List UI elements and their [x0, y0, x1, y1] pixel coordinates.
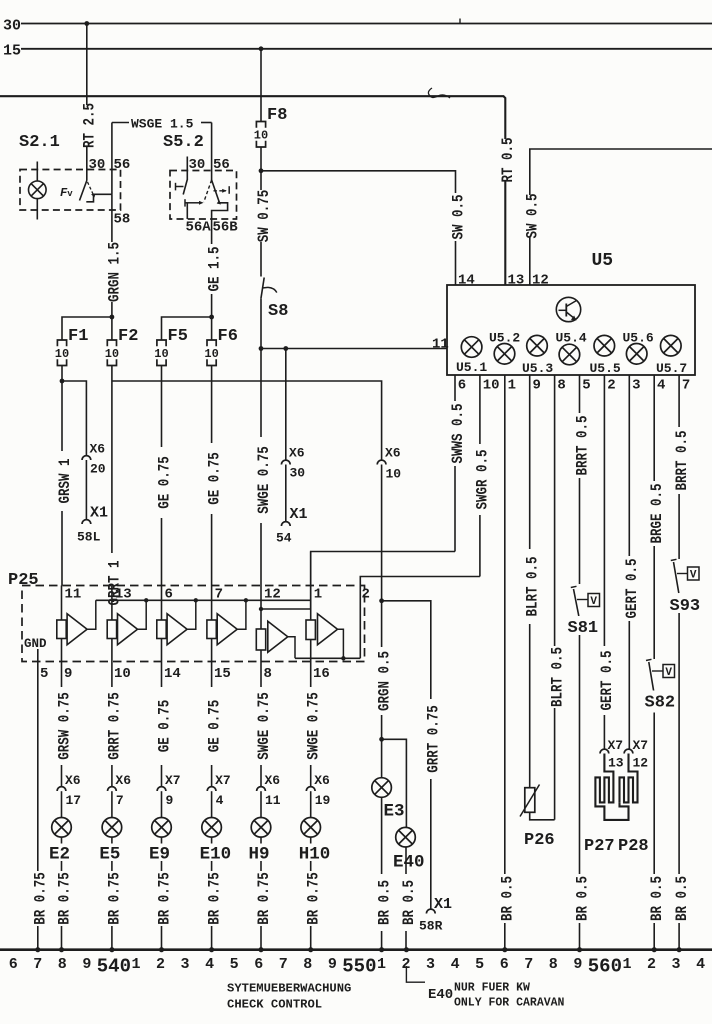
svg-text:P26: P26 [524, 831, 555, 850]
lamp E10 [202, 818, 222, 838]
svg-text:4: 4 [696, 956, 705, 973]
wire U5 pin4 down [653, 375, 655, 659]
switch S8 blade [261, 278, 264, 299]
svg-text:S93: S93 [670, 597, 701, 616]
junction X6-30 branch [283, 346, 288, 351]
svg-text:U5.7: U5.7 [656, 361, 687, 376]
junction rail x381 [379, 947, 384, 952]
lamp H10 [301, 818, 321, 838]
connector X6 pin19 arc H10 [306, 787, 315, 791]
unit U5 box [447, 285, 695, 375]
wire GRGN 0.5 run [112, 381, 382, 460]
svg-text:F1: F1 [68, 327, 88, 346]
wire F5 top jog [162, 317, 212, 340]
junction bus2 [341, 656, 345, 660]
junction rail x261 [258, 947, 263, 952]
svg-text:10: 10 [114, 666, 131, 682]
wire label BR 0.5 s93 [672, 874, 687, 923]
lamp E2 label [48, 844, 73, 862]
wire label SW 0.5 pin12 [522, 195, 537, 237]
heater coil P28 [620, 754, 638, 803]
svg-text:15: 15 [214, 666, 231, 682]
wire label BR 0.75 E2 [54, 871, 69, 926]
wire label BR 0.5 s81 [572, 874, 587, 923]
wire P25 to E5 [111, 662, 113, 787]
svg-text:4: 4 [657, 378, 665, 394]
svg-text:SW 0.5: SW 0.5 [450, 195, 467, 240]
svg-text:X1: X1 [434, 896, 452, 913]
junction bus15/F8 [259, 46, 264, 51]
wire E2 to rail [61, 837, 63, 949]
svg-text:9: 9 [328, 956, 337, 973]
svg-text:BR 0.5: BR 0.5 [574, 876, 591, 921]
svg-text:9: 9 [573, 956, 582, 973]
junction rail x504 [502, 947, 507, 952]
svg-text:5: 5 [582, 378, 590, 394]
buffer 4 wire out [211, 639, 213, 662]
svg-text:58R: 58R [419, 919, 443, 934]
lamp E10 label [198, 844, 232, 862]
svg-text:10: 10 [386, 467, 402, 482]
svg-text:BLRT 0.5: BLRT 0.5 [549, 647, 566, 707]
svg-text:P27: P27 [584, 837, 615, 856]
svg-text:BR 0.5: BR 0.5 [376, 880, 393, 925]
connector X6 pin11 arc H9 [257, 787, 266, 791]
svg-text:1: 1 [314, 587, 322, 603]
lamp U5.5 [594, 335, 615, 356]
switch S93 [671, 559, 677, 560]
wire RT 2.5 [86, 24, 88, 181]
wire label BR 0.5 s82 [647, 874, 662, 923]
fuse F2 [107, 340, 116, 346]
svg-text:16: 16 [313, 666, 330, 682]
svg-text:9: 9 [82, 956, 91, 973]
svg-text:56: 56 [114, 157, 131, 173]
buffer 4 in P25 triangle [217, 614, 237, 645]
buffer 2 output [138, 600, 147, 629]
wire label GRGN 0.5 [374, 647, 389, 715]
wire stub below S2.1 lamp [36, 199, 38, 220]
svg-text:BR 0.75: BR 0.75 [33, 872, 50, 925]
thermistor P26 out [530, 812, 555, 820]
svg-text:X7: X7 [165, 773, 181, 788]
svg-text:SWWS 0.5: SWWS 0.5 [450, 404, 467, 464]
svg-text:8: 8 [264, 666, 272, 682]
svg-text:6: 6 [500, 956, 509, 973]
lamp H10 label [297, 844, 331, 862]
svg-text:X6: X6 [265, 773, 281, 788]
svg-text:20: 20 [90, 462, 106, 477]
wire X7 to lamp E9 [161, 791, 163, 817]
lamp U5.4 [559, 344, 580, 365]
wire label GRSW 0.75 E2 [54, 687, 69, 765]
wire below F5 [161, 366, 163, 586]
buffer 5 wire in [260, 586, 262, 630]
buffer 1 in P25 triangle [67, 614, 87, 645]
svg-text:RT 2.5: RT 2.5 [82, 103, 99, 148]
wire X6-20 to X1 [85, 460, 87, 519]
wire rail to RT 0.5 [0, 96, 505, 285]
wire label GRRT 0.75 [423, 699, 438, 779]
svg-text:10: 10 [254, 129, 268, 143]
svg-text:P28: P28 [618, 837, 649, 856]
lamp U5.2 [494, 344, 515, 365]
wire label GE 0.75 E9 [154, 687, 169, 765]
wire GE 1.5 [211, 219, 213, 340]
wire X6 to lamp H10 [310, 791, 312, 817]
wire below F6 [211, 366, 213, 586]
S2.1 contact step [86, 194, 112, 202]
wire label BRRT 0.5 p7 [672, 427, 687, 494]
connector X7 pin9 arc E9 [157, 787, 166, 791]
svg-text:V: V [590, 596, 597, 608]
svg-text:E10: E10 [200, 845, 232, 865]
svg-text:9: 9 [64, 666, 72, 682]
junction rail x579 [577, 947, 582, 952]
svg-text:58: 58 [114, 212, 131, 228]
wire below F1 [61, 366, 63, 586]
svg-text:1: 1 [622, 956, 631, 973]
lamp E40 [396, 827, 416, 847]
svg-text:2: 2 [647, 956, 656, 973]
buffer 3 wire out [161, 639, 163, 662]
connector X7 pin4 arc E10 [207, 787, 216, 791]
lamp U5.1 [461, 337, 482, 358]
wire label BR 0.5 E40 [399, 874, 414, 931]
lamp E2 [52, 818, 72, 838]
wire to U5 pin14 [261, 171, 456, 285]
thermistor P26 [525, 788, 535, 813]
wire U5 pin3 down [628, 375, 630, 749]
wire F8 feed [260, 49, 262, 122]
buffer 5 wire out [260, 650, 262, 662]
wire label GE 1.5 [204, 244, 219, 294]
wire E40 to rail [405, 847, 407, 950]
svg-text:V: V [665, 667, 672, 679]
wire label GRGN 1.5 [104, 242, 119, 302]
buffer 6 output [338, 629, 344, 658]
svg-text:19: 19 [315, 793, 331, 808]
svg-text:GERT 0.5: GERT 0.5 [599, 651, 616, 711]
svg-text:7: 7 [279, 956, 288, 973]
svg-text:8: 8 [58, 956, 67, 973]
svg-text:BR 0.75: BR 0.75 [206, 872, 223, 925]
svg-text:S82: S82 [645, 694, 676, 713]
wire below F8 [260, 147, 262, 277]
svg-text:15: 15 [3, 43, 21, 60]
wire S5.2 pin30 stub [186, 157, 188, 181]
svg-text:1: 1 [377, 956, 386, 973]
svg-text:56B: 56B [213, 220, 239, 236]
connector X6 pin30 arc [281, 460, 290, 464]
wire label BR 0.75 E9 [154, 871, 169, 926]
wire label BR 0.75 H9 [254, 871, 269, 926]
svg-text:GE 0.75: GE 0.75 [156, 456, 173, 509]
wire P25 to E2 [61, 662, 63, 787]
svg-text:SWGE 0.75: SWGE 0.75 [256, 692, 273, 759]
wire below S82 [653, 713, 655, 950]
junction rail x61 [59, 947, 64, 952]
svg-text:58L: 58L [77, 530, 101, 545]
connector X6 pin10 arc [377, 460, 386, 464]
wire E40 branch [382, 739, 407, 827]
buffer 3 in P25 resistor [157, 620, 166, 639]
svg-text:7: 7 [116, 793, 124, 808]
svg-text:SWGR 0.5: SWGR 0.5 [475, 450, 492, 510]
wire label GE 0.75 E10 [204, 687, 219, 765]
buffer 6 resistor [306, 620, 315, 640]
lamp H9 label [247, 844, 272, 862]
svg-text:F5: F5 [168, 327, 188, 346]
wire label BLRT 0.5 p9 [522, 549, 537, 624]
svg-text:3: 3 [632, 378, 640, 394]
lamp E9 label [148, 844, 173, 862]
svg-text:30: 30 [3, 18, 21, 35]
svg-text:GE 1.5: GE 1.5 [206, 247, 223, 292]
junction E40 branch [379, 737, 384, 742]
dashed arrow S2.1 [88, 182, 94, 194]
wire label RT 0.5 [498, 139, 513, 181]
svg-text:U5.6: U5.6 [623, 331, 654, 346]
svg-text:WSGE 1.5: WSGE 1.5 [131, 117, 194, 132]
fuse F1 [57, 340, 66, 346]
svg-text:X1: X1 [290, 506, 308, 523]
wire label SW 0.5 pin14 [448, 193, 463, 241]
wire stub above S2.1 lamp [36, 162, 38, 182]
svg-text:GE 0.75: GE 0.75 [206, 700, 223, 753]
wire label BR 0.5 p1 [497, 874, 512, 923]
wire below F2 [111, 366, 113, 586]
wire label BR 0.75 GND [30, 871, 45, 926]
svg-text:30: 30 [89, 157, 106, 173]
switch S81 label [566, 616, 603, 635]
svg-text:8: 8 [557, 378, 565, 394]
wire U5 pin8 down [554, 375, 556, 820]
svg-text:E5: E5 [99, 845, 120, 865]
svg-text:3: 3 [426, 956, 435, 973]
buffer 4 wire in [211, 586, 213, 621]
lamp U5.7 [661, 335, 682, 356]
wire P25 to H9 [260, 662, 262, 787]
connector X1 pin58R arc [426, 909, 435, 913]
junction rail x654 [652, 947, 657, 952]
junction rail x161 [159, 947, 164, 952]
connector X1 pin54 arc [281, 522, 290, 526]
buffer 6 wire out [310, 640, 312, 662]
S5.2 right contact [228, 186, 230, 194]
switch S81 vbox [588, 594, 600, 607]
S5.2 left contact [176, 186, 184, 188]
wire GRGN 0.5 down [381, 465, 383, 778]
junction rail x211 [209, 947, 214, 952]
svg-text:GRGN 0.5: GRGN 0.5 [376, 651, 393, 711]
svg-text:BLRT 0.5: BLRT 0.5 [524, 557, 541, 617]
wire S2.1 pin56 drop [111, 123, 113, 195]
buffer 1 wire out [61, 639, 63, 662]
svg-text:S81: S81 [568, 619, 599, 638]
wire label BRRT 0.5 p5 [572, 413, 587, 478]
svg-text:U5: U5 [592, 251, 614, 271]
svg-text:ONLY FOR CARAVAN: ONLY FOR CARAVAN [454, 997, 565, 1010]
svg-text:BRRT 0.5: BRRT 0.5 [674, 431, 691, 491]
svg-text:X6: X6 [289, 446, 305, 461]
svg-text:E3: E3 [384, 802, 405, 822]
wire label SWWS 0.5 [448, 401, 463, 466]
junction bus1 b2 [144, 598, 148, 602]
wire U5 pin6 down [454, 375, 456, 552]
wire U5 pin10 down [479, 375, 481, 577]
switch S93 vbox [688, 567, 700, 580]
svg-text:GRRT 0.75: GRRT 0.75 [107, 692, 124, 759]
junction F8/SW0.5 [259, 168, 264, 173]
wire P25 to E10 [211, 662, 213, 787]
svg-text:6: 6 [9, 956, 18, 973]
wire pin1 link [311, 552, 455, 610]
junction rail x111 [109, 947, 114, 952]
svg-text:SWGE 0.75: SWGE 0.75 [305, 692, 322, 759]
wire S5.2 pin56 drop [211, 123, 213, 181]
svg-text:GE 0.75: GE 0.75 [206, 452, 223, 505]
junction GE/F5 [209, 315, 214, 320]
svg-text:X6: X6 [65, 773, 81, 788]
switch S82 [646, 659, 652, 660]
svg-text:H10: H10 [299, 845, 331, 865]
buffer 1 output [87, 600, 96, 629]
buffer 3 output [187, 600, 196, 629]
artifact squiggle [428, 88, 450, 98]
wire SWGE 0.75 [260, 349, 262, 586]
svg-text:BR 0.75: BR 0.75 [256, 872, 273, 925]
connector X1 pin58L arc [82, 520, 91, 524]
wire U5 pin9 down [529, 375, 531, 788]
svg-text:BR 0.5: BR 0.5 [674, 876, 691, 921]
S5.2 output step [212, 203, 228, 219]
svg-text:Fv: Fv [60, 186, 73, 200]
svg-text:10: 10 [483, 378, 500, 394]
wire X6 to lamp E2 [61, 791, 63, 817]
svg-text:H9: H9 [249, 845, 270, 865]
transistor in U5 [556, 297, 580, 321]
svg-text:30: 30 [189, 157, 206, 173]
connector X6 pin20 arc [82, 456, 91, 460]
svg-text:6: 6 [458, 378, 466, 394]
svg-text:BR 0.75: BR 0.75 [107, 872, 124, 925]
wire label SW 0.75 [254, 190, 269, 242]
svg-text:3: 3 [181, 956, 190, 973]
svg-text:3: 3 [672, 956, 681, 973]
svg-text:F2: F2 [118, 327, 138, 346]
buffer 3 in P25 triangle [167, 614, 187, 645]
svg-text:S8: S8 [268, 302, 288, 321]
wire below S81 [579, 635, 581, 950]
wire X6-30 to X1 [285, 465, 287, 522]
svg-text:5: 5 [40, 666, 48, 682]
wire label GRRT 0.75 E5 [104, 687, 119, 765]
switch S93 label [668, 594, 705, 613]
junction rail x310 [308, 947, 313, 952]
wire label GE 0.75 F6 [204, 443, 219, 514]
svg-text:E9: E9 [149, 845, 170, 865]
svg-text:10: 10 [105, 347, 119, 361]
svg-text:X6: X6 [314, 773, 330, 788]
wire below S8 [260, 299, 262, 349]
S5.2 dashed branch [214, 190, 227, 192]
svg-text:10: 10 [154, 347, 168, 361]
connector X6 pin7 arc E5 [108, 787, 117, 791]
svg-text:2: 2 [362, 587, 370, 603]
svg-text:U5.3: U5.3 [522, 361, 553, 376]
buffer 6 triangle [318, 614, 338, 645]
svg-text:U5.1: U5.1 [456, 360, 487, 375]
junction GRRT branch [379, 598, 384, 603]
S5.2 dashed blade [204, 180, 212, 202]
wire E9 to rail [161, 837, 163, 949]
E40 note line [406, 966, 425, 982]
buffer 5 output [288, 637, 295, 659]
svg-text:F6: F6 [218, 327, 238, 346]
wire X6 to lamp H9 [260, 791, 262, 817]
svg-text:E40: E40 [393, 853, 425, 873]
lamp U5.3 [527, 335, 548, 356]
svg-text:GRRT 0.75: GRRT 0.75 [426, 705, 443, 772]
fuse F8 [256, 122, 265, 128]
wire GRGN 1.5 [111, 194, 113, 340]
wire to U5 pin11 [261, 348, 447, 350]
wire H9 to rail [260, 837, 262, 949]
svg-text:14: 14 [458, 273, 475, 289]
svg-text:X6: X6 [385, 446, 401, 461]
svg-text:8: 8 [549, 956, 558, 973]
wire X6 to lamp E5 [111, 791, 113, 817]
svg-text:7: 7 [33, 956, 42, 973]
buffer 2 in P25 resistor [107, 620, 116, 639]
svg-text:U5.4: U5.4 [556, 331, 587, 346]
GND wire stub [37, 649, 39, 662]
svg-text:10: 10 [204, 347, 218, 361]
bus1 in P25 [96, 599, 311, 601]
bus2 in P25 [295, 657, 360, 659]
svg-text:BRGE 0.5: BRGE 0.5 [649, 484, 666, 544]
wire label BR 0.75 E5 [104, 871, 119, 926]
buffer 1 in P25 resistor [57, 620, 66, 639]
lamp E5 [102, 818, 122, 838]
wire U5 pin5 down [579, 375, 581, 584]
svg-text:54: 54 [276, 531, 292, 546]
fuse F5 [157, 340, 166, 346]
connector X6 pin17 arc E2 [57, 787, 66, 791]
svg-text:X7: X7 [608, 738, 624, 753]
wire label SWGE 0.75 H9 [254, 687, 269, 765]
wire GRRT 0.75 branch [382, 601, 431, 909]
svg-text:4: 4 [451, 956, 460, 973]
svg-text:11: 11 [65, 587, 82, 603]
svg-text:GE 0.75: GE 0.75 [156, 700, 173, 753]
svg-text:2: 2 [156, 956, 165, 973]
wire WSGE 1.5 left stub [112, 122, 129, 124]
fuse F6 [207, 340, 216, 346]
ground rail [0, 948, 712, 951]
wire P25 to H10 [310, 662, 312, 787]
svg-text:7: 7 [682, 378, 690, 394]
svg-text:BRRT 0.5: BRRT 0.5 [574, 416, 591, 476]
junction S8 out [259, 346, 264, 351]
svg-text:8: 8 [303, 956, 312, 973]
svg-text:S2.1: S2.1 [19, 133, 60, 152]
wire GND to rail [37, 662, 39, 950]
svg-text:F8: F8 [267, 106, 287, 125]
switch S81 [571, 586, 577, 587]
svg-text:1: 1 [508, 378, 516, 394]
